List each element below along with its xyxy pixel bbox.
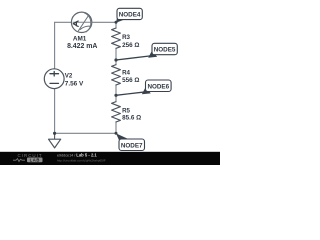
wire bottom horizontal — [55, 132, 116, 134]
wire R3 bottom to node B — [115, 48, 117, 65]
junction node A (top corner, NODE4 anchor) — [115, 21, 118, 24]
ground — [49, 133, 61, 148]
wire V2 bottom to ground junction — [54, 89, 56, 134]
svg-text:556 Ω: 556 Ω — [122, 77, 139, 84]
voltage source V2 — [44, 69, 64, 89]
svg-text:http://circuitlab.com/c/gHx2hz: http://circuitlab.com/c/gHx2hzhp65fF — [57, 159, 106, 163]
wire R4 bottom to node C — [115, 85, 117, 102]
wire node A down to R3 top — [115, 22, 117, 28]
wire top-left corner to ammeter left pin — [55, 21, 72, 23]
svg-text:85.6 Ω: 85.6 Ω — [122, 115, 141, 122]
svg-text:R3: R3 — [122, 34, 130, 41]
wire through ammeter — [72, 21, 92, 23]
wire V2 top to corner — [54, 22, 56, 68]
svg-text:NODE6: NODE6 — [147, 83, 169, 90]
node flag NODE6 — [116, 80, 171, 95]
junction node B (R3/R4, NODE5 anchor) — [114, 58, 117, 61]
wire R5 bottom to node D corner — [115, 122, 117, 134]
resistor R5 — [112, 102, 121, 122]
svg-text:AM1: AM1 — [73, 35, 87, 42]
svg-text:256 Ω: 256 Ω — [122, 42, 139, 49]
svg-text:NODE4: NODE4 — [119, 12, 141, 19]
junction ground node — [53, 132, 56, 135]
svg-text:NODE5: NODE5 — [154, 47, 176, 54]
svg-text:e9ddce14 / Lab 5 - 2.1: e9ddce14 / Lab 5 - 2.1 — [57, 153, 97, 158]
svg-text:R4: R4 — [122, 69, 130, 76]
circuitlab logo — [13, 153, 43, 162]
node flag NODE7 — [116, 133, 145, 150]
node flag NODE4 — [116, 8, 142, 22]
wire ammeter right pin to node A corner — [92, 21, 116, 23]
svg-text:R5: R5 — [122, 107, 130, 114]
ammeter AM1 — [71, 12, 92, 32]
watermark bar — [0, 152, 220, 165]
svg-text:NODE7: NODE7 — [121, 142, 143, 149]
junction node C (R4/R5, NODE6 anchor) — [114, 94, 117, 97]
svg-text:V2: V2 — [65, 73, 73, 80]
svg-text:LAB: LAB — [30, 157, 40, 162]
svg-text:8.422 mA: 8.422 mA — [67, 43, 97, 50]
resistor R4 — [112, 65, 121, 85]
resistor R3 — [112, 28, 121, 48]
svg-text:7.56 V: 7.56 V — [65, 81, 84, 88]
node flag NODE5 — [116, 43, 177, 60]
junction node D (bottom corner, NODE7 anchor) — [115, 132, 118, 135]
